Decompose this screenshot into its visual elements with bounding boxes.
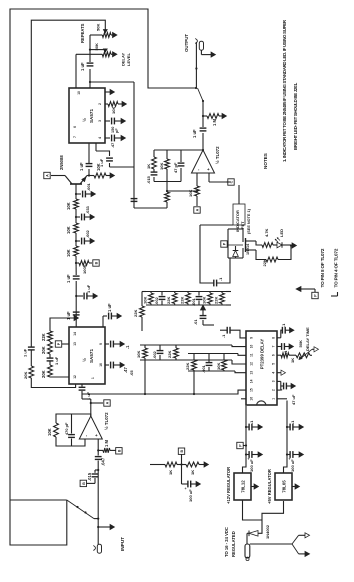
svg-text:B: B: [82, 482, 86, 485]
svg-text:22K: 22K: [41, 333, 46, 341]
svg-text:22K: 22K: [133, 310, 138, 317]
svg-text:.001: .001: [201, 364, 206, 373]
svg-text:6: 6: [73, 126, 77, 128]
svg-text:.002: .002: [152, 350, 157, 359]
svg-text:A: A: [46, 174, 50, 177]
svg-text:½: ½: [81, 358, 87, 362]
svg-text:DELAY: DELAY: [121, 52, 126, 66]
svg-text:+: +: [280, 389, 284, 391]
svg-text:1. INDICATOR FET TO BE 2N5485: 1. INDICATOR FET TO BE 2N5485 IF USING S…: [282, 19, 287, 162]
svg-text:1 uF: 1 uF: [192, 129, 197, 138]
svg-text:1K: 1K: [290, 358, 295, 363]
svg-text:14: 14: [73, 332, 77, 336]
svg-text:LEVEL: LEVEL: [126, 53, 131, 66]
svg-text:B: B: [118, 449, 122, 452]
svg-text:PT2399 DELAY: PT2399 DELAY: [259, 339, 264, 370]
svg-text:1 uF: 1 uF: [80, 62, 85, 71]
svg-text:SA571: SA571: [89, 109, 94, 123]
svg-text:20K: 20K: [41, 370, 46, 378]
svg-text:16: 16: [250, 397, 254, 401]
svg-text:15: 15: [250, 388, 254, 392]
svg-text:.05: .05: [129, 370, 134, 376]
svg-text:B: B: [95, 261, 99, 264]
svg-text:1 uF: 1 uF: [23, 348, 28, 357]
svg-text:1 uF: 1 uF: [86, 284, 91, 293]
svg-text:.01: .01: [193, 319, 198, 325]
svg-text:5: 5: [272, 363, 276, 365]
svg-text:.47: .47: [111, 143, 115, 148]
svg-text:LED: LED: [279, 229, 284, 237]
svg-text:10K: 10K: [66, 226, 71, 234]
svg-text:1 uF: 1 uF: [66, 311, 71, 320]
svg-text:11: 11: [250, 353, 254, 357]
svg-text:TO PIN 4 OF TL072: TO PIN 4 OF TL072: [333, 248, 338, 287]
svg-text:10K: 10K: [136, 351, 141, 358]
svg-text:50K: 50K: [96, 24, 101, 31]
svg-text:1 uF: 1 uF: [79, 162, 84, 171]
svg-text:OUTPUT: OUTPUT: [184, 34, 189, 52]
svg-text:+12V REGULATOR: +12V REGULATOR: [226, 467, 231, 504]
svg-text:1 uF: 1 uF: [54, 356, 59, 365]
svg-text:1: 1: [272, 398, 276, 400]
svg-text:50K: 50K: [298, 340, 303, 347]
svg-text:pF: pF: [115, 128, 119, 133]
svg-text:1K: 1K: [168, 470, 173, 475]
svg-text:1 uF: 1 uF: [66, 274, 71, 283]
svg-text:10K: 10K: [66, 249, 71, 257]
svg-text:(SEE NOTE 1): (SEE NOTE 1): [247, 208, 251, 234]
svg-text:12: 12: [250, 362, 254, 366]
svg-text:1N914: 1N914: [246, 243, 250, 255]
svg-text:9: 9: [99, 343, 103, 345]
svg-text:78L05: 78L05: [282, 480, 287, 493]
svg-text:1 M: 1 M: [212, 119, 217, 126]
svg-text:22K: 22K: [185, 363, 190, 370]
svg-text:100K: 100K: [82, 264, 87, 274]
svg-text:100 uF: 100 uF: [188, 489, 193, 502]
svg-text:TO PIN 8 OF TL072: TO PIN 8 OF TL072: [320, 248, 325, 287]
svg-text:.033: .033: [85, 205, 90, 214]
svg-text:22K: 22K: [166, 297, 171, 304]
svg-text:10K: 10K: [159, 163, 164, 170]
svg-text:22K: 22K: [262, 259, 267, 266]
svg-text:16: 16: [99, 363, 103, 367]
svg-text:.47: .47: [123, 367, 128, 373]
svg-text:BRIGHT LED- FET SHOULD BE J201: BRIGHT LED- FET SHOULD BE J201.: [293, 83, 298, 150]
svg-text:20K: 20K: [41, 346, 46, 354]
svg-text:10K: 10K: [111, 107, 116, 114]
svg-text:10: 10: [77, 91, 81, 95]
svg-text:A: A: [196, 208, 200, 211]
svg-text:12: 12: [73, 375, 77, 379]
svg-text:47 uF: 47 uF: [291, 394, 296, 405]
svg-text:.002: .002: [154, 296, 159, 305]
svg-text:4: 4: [272, 372, 276, 374]
svg-text:INPUT: INPUT: [120, 537, 125, 551]
svg-text:10K: 10K: [143, 297, 148, 304]
svg-text:3: 3: [272, 380, 276, 382]
svg-text:2: 2: [272, 389, 276, 391]
svg-text:13: 13: [250, 371, 254, 375]
svg-text:.002: .002: [85, 229, 90, 238]
svg-text:7: 7: [272, 345, 276, 347]
svg-text:.001: .001: [191, 297, 196, 306]
svg-text:4.7K: 4.7K: [264, 228, 269, 237]
svg-text:14: 14: [250, 379, 254, 383]
svg-text:.047: .047: [101, 457, 106, 466]
svg-text:10K: 10K: [202, 297, 207, 304]
svg-text:1K: 1K: [146, 164, 151, 169]
svg-text:10K: 10K: [216, 363, 221, 370]
svg-text:REPEATS: REPEATS: [80, 23, 85, 43]
svg-text:1 M: 1 M: [104, 440, 109, 447]
svg-text:20K: 20K: [23, 372, 28, 379]
svg-text:2: 2: [98, 103, 102, 105]
svg-text:10K: 10K: [47, 428, 52, 436]
svg-text:1K: 1K: [190, 470, 195, 475]
svg-text:1 uF: 1 uF: [99, 158, 104, 167]
svg-text:SA571: SA571: [89, 349, 94, 363]
svg-text:REGULATED: REGULATED: [231, 531, 236, 557]
svg-text:TO 16 - 24 VDC: TO 16 - 24 VDC: [224, 527, 229, 557]
svg-text:9: 9: [250, 337, 254, 339]
svg-text:1N4002: 1N4002: [265, 524, 270, 539]
svg-text:10K: 10K: [66, 202, 71, 210]
svg-text:2N5088: 2N5088: [59, 155, 64, 170]
svg-text:+5V REGULATOR: +5V REGULATOR: [267, 469, 272, 504]
svg-text:22K: 22K: [214, 297, 219, 304]
svg-text:.015: .015: [146, 175, 151, 184]
svg-text:½: ½: [81, 118, 87, 122]
svg-text:1 uF: 1 uF: [107, 303, 112, 312]
svg-text:7: 7: [73, 136, 77, 138]
svg-text:C: C: [230, 180, 234, 183]
svg-text:.001: .001: [86, 182, 91, 191]
svg-text:3: 3: [98, 120, 102, 122]
svg-text:8: 8: [272, 337, 276, 339]
svg-text:½ TL072: ½ TL072: [104, 412, 109, 430]
svg-text:4: 4: [98, 137, 102, 139]
svg-text:NOTES: NOTES: [263, 153, 268, 169]
svg-text:22K: 22K: [180, 297, 185, 304]
svg-text:1: 1: [91, 377, 95, 379]
svg-text:470 pF: 470 pF: [64, 422, 69, 435]
svg-text:DELAY TIME: DELAY TIME: [305, 327, 310, 351]
svg-text:47 pF: 47 pF: [173, 162, 178, 173]
svg-text:+: +: [184, 487, 188, 489]
svg-text:22K: 22K: [167, 351, 172, 358]
svg-text:10: 10: [250, 345, 254, 349]
svg-text:½ TL072: ½ TL072: [215, 146, 220, 164]
svg-text:B: B: [180, 450, 184, 453]
svg-text:.015: .015: [87, 472, 92, 481]
svg-text:A: A: [106, 401, 110, 404]
svg-text:78L12: 78L12: [241, 480, 246, 493]
svg-text:13: 13: [73, 342, 77, 346]
svg-text:6: 6: [272, 354, 276, 356]
